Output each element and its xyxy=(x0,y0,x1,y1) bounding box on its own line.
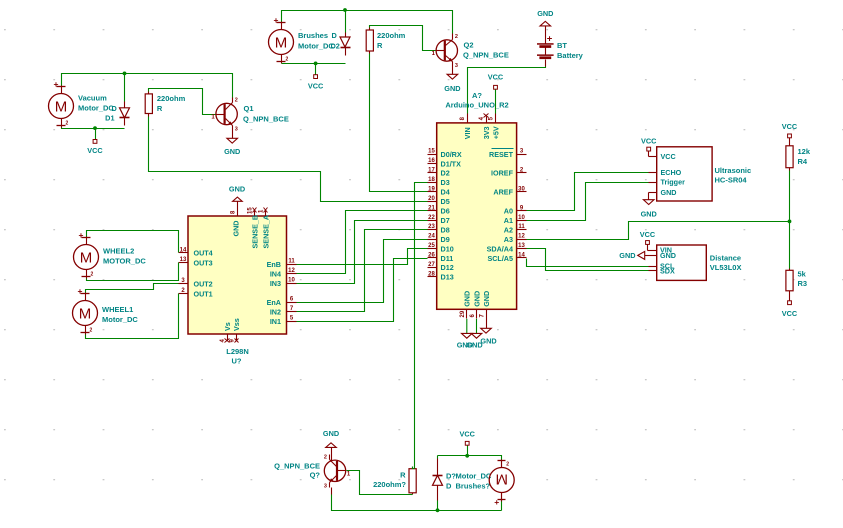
svg-text:BT: BT xyxy=(557,41,567,50)
svg-text:2: 2 xyxy=(455,34,458,40)
svg-text:IOREF: IOREF xyxy=(491,169,514,178)
wire battery minus to Arduino VIN xyxy=(468,67,546,114)
svg-text:L298N: L298N xyxy=(226,347,249,356)
svg-text:2: 2 xyxy=(90,328,93,334)
svg-text:ECHO: ECHO xyxy=(661,168,682,177)
svg-text:12: 12 xyxy=(288,268,295,274)
svg-text:D3: D3 xyxy=(441,178,450,187)
wire IN3 to D7 xyxy=(297,221,428,284)
junction VCC tap vacuum xyxy=(93,126,97,130)
svg-text:WHEEL2: WHEEL2 xyxy=(103,247,134,256)
pin 4 3V3 (no-connect) xyxy=(486,117,488,123)
svg-text:5k: 5k xyxy=(798,270,807,279)
svg-text:25: 25 xyxy=(428,243,435,249)
wire EnA to D9 xyxy=(297,240,428,303)
svg-text:GND: GND xyxy=(482,291,491,307)
pin 15 SENSE_B (no-connect) xyxy=(254,211,256,217)
pin 12 A3 xyxy=(517,239,527,241)
wire WHEEL2 plus to OUT4 xyxy=(87,231,179,253)
wire WHEEL1 minus to OUT1 xyxy=(86,294,179,339)
svg-text:29: 29 xyxy=(460,310,466,317)
svg-text:+: + xyxy=(78,286,83,296)
wire Q? base to resistor xyxy=(347,471,411,495)
pin 14 SCL/A5 xyxy=(517,257,527,259)
svg-text:GND: GND xyxy=(232,221,241,237)
svg-text:GND: GND xyxy=(641,210,657,219)
svg-text:SENSE_B: SENSE_B xyxy=(250,215,259,249)
wire D? anode to bottom rail xyxy=(437,501,439,511)
IC U? L298N body xyxy=(188,216,287,334)
pin 9 A0 xyxy=(517,210,527,212)
svg-text:GND: GND xyxy=(537,9,553,18)
svg-text:M: M xyxy=(80,249,93,266)
pin ECHO xyxy=(649,172,657,174)
svg-text:SDA/A4: SDA/A4 xyxy=(487,244,513,253)
svg-text:M: M xyxy=(495,471,508,488)
svg-text:Distance: Distance xyxy=(710,254,741,263)
svg-text:GND: GND xyxy=(472,291,481,307)
wire SCL/A5 to SCL xyxy=(527,259,649,267)
svg-text:Trigger: Trigger xyxy=(661,178,686,187)
svg-text:12k: 12k xyxy=(798,147,811,156)
svg-text:WHEEL1: WHEEL1 xyxy=(102,305,133,314)
pin 26 D11 xyxy=(428,257,437,259)
pin 3 RESET xyxy=(517,154,527,156)
svg-text:M: M xyxy=(55,98,68,115)
pin 8 GND (L298N) + ground flag xyxy=(237,202,239,217)
svg-text:U?: U? xyxy=(232,357,242,366)
diode D1 pin leads xyxy=(124,102,126,108)
svg-text:GND: GND xyxy=(480,337,496,346)
svg-text:3: 3 xyxy=(235,127,238,133)
svg-text:D8: D8 xyxy=(441,225,450,234)
svg-text:Motor_DC: Motor_DC xyxy=(78,104,114,113)
svg-text:+: + xyxy=(54,79,59,89)
svg-text:30: 30 xyxy=(518,186,525,192)
pin 21 D6 xyxy=(428,210,437,212)
pin 6 EnA xyxy=(287,302,297,304)
svg-text:A0: A0 xyxy=(504,207,513,216)
svg-text:Battery: Battery xyxy=(557,51,584,60)
svg-text:R: R xyxy=(157,104,163,113)
svg-text:A2: A2 xyxy=(504,225,513,234)
svg-text:AREF: AREF xyxy=(493,188,513,197)
wire vacuum top rail to Q1 collector xyxy=(62,74,233,99)
svg-text:IN4: IN4 xyxy=(270,269,281,278)
junction divider mid xyxy=(788,220,792,224)
pin 3 OUT2 xyxy=(179,283,189,285)
power flag VCC HC-SR04 xyxy=(647,147,651,151)
wire Q? emitter to bottom rail xyxy=(332,495,502,511)
svg-text:Brushes?: Brushes? xyxy=(456,481,491,490)
svg-text:2: 2 xyxy=(506,462,509,468)
diode D2 xyxy=(340,37,350,47)
resistor R 220ohm Q2 xyxy=(366,30,373,51)
IC A? Arduino_UNO_R2 body xyxy=(437,123,517,309)
pin 4 Vs (no-connect) xyxy=(227,335,229,341)
svg-text:VIN: VIN xyxy=(463,127,472,139)
ground GND Q? collector xyxy=(326,443,337,448)
svg-text:+: + xyxy=(79,230,84,240)
pin SDA xyxy=(649,270,657,272)
svg-text:D1/TX: D1/TX xyxy=(441,159,462,168)
svg-text:15: 15 xyxy=(428,149,435,155)
svg-text:R4: R4 xyxy=(798,157,808,166)
svg-text:IN3: IN3 xyxy=(270,279,281,288)
svg-text:VCC: VCC xyxy=(87,146,103,155)
svg-text:R: R xyxy=(377,41,383,50)
wire A0 to ECHO xyxy=(527,173,649,211)
svg-text:Q_NPN_BCE: Q_NPN_BCE xyxy=(243,114,289,123)
pin 7 IN2 xyxy=(287,311,297,313)
pin 29 GND / ground xyxy=(466,310,468,319)
pin GND (VL53L0X) xyxy=(645,255,657,257)
svg-text:2: 2 xyxy=(324,454,327,460)
pin 28 D13 xyxy=(428,276,437,278)
wire resistor bottom to Arduino D4 xyxy=(370,54,428,192)
svg-text:IN1: IN1 xyxy=(270,317,281,326)
ground Q2 emitter lead xyxy=(452,68,454,75)
wire VCC to +5V pin xyxy=(495,90,497,114)
motor M WHEEL1 Motor_DC xyxy=(73,301,98,326)
svg-text:26: 26 xyxy=(428,253,435,259)
pin VCC (HC-SR04) xyxy=(649,156,657,158)
pin 13 SDA/A4 xyxy=(517,248,527,250)
resistor R3 5k xyxy=(786,270,793,291)
svg-text:A?: A? xyxy=(472,91,482,100)
pin 27 D12 xyxy=(428,267,437,269)
pin 5 IN1 xyxy=(287,321,297,323)
svg-text:VCC: VCC xyxy=(782,122,798,131)
svg-text:16: 16 xyxy=(428,158,435,164)
diode D2 pin leads xyxy=(345,33,347,38)
pin Trigger xyxy=(649,182,657,184)
svg-text:IN2: IN2 xyxy=(270,307,281,316)
svg-text:Arduino_UNO_R2: Arduino_UNO_R2 xyxy=(445,101,508,110)
motor M Vacuum Motor_DC xyxy=(49,94,74,119)
wire D3 drop to resistor top xyxy=(413,467,415,469)
resistor R4 12k xyxy=(786,146,793,168)
power flag VCC brushes xyxy=(314,75,318,79)
svg-text:VCC: VCC xyxy=(459,430,475,439)
wire to VCC flag bottom xyxy=(467,446,469,456)
svg-text:15: 15 xyxy=(248,207,254,214)
wire to VCC flag xyxy=(95,129,97,140)
ground GND HC-SR04 xyxy=(643,200,654,205)
wire resistor bottom to Arduino D5 xyxy=(149,117,428,202)
svg-text:D10: D10 xyxy=(441,244,454,253)
svg-text:GND: GND xyxy=(619,251,635,260)
svg-text:GND: GND xyxy=(444,84,460,93)
ground GND Q2 xyxy=(447,74,458,79)
svg-text:OUT1: OUT1 xyxy=(194,289,213,298)
svg-text:D: D xyxy=(332,31,337,40)
svg-text:EnA: EnA xyxy=(267,298,281,307)
battery BT leads xyxy=(545,26,547,44)
svg-text:11: 11 xyxy=(518,224,525,230)
motor M Brushes? Motor_DC (mirrored) xyxy=(489,468,514,493)
power flag VCC R4 top xyxy=(788,134,792,138)
pin 2 IOREF xyxy=(517,172,527,174)
pin 9 Vss (no-connect) xyxy=(236,335,238,341)
svg-text:13: 13 xyxy=(518,243,525,249)
wire A3 to divider junction xyxy=(527,222,790,240)
svg-text:14: 14 xyxy=(518,253,525,259)
svg-text:D9: D9 xyxy=(441,235,450,244)
svg-text:Vss: Vss xyxy=(232,318,241,331)
wire brushes top rail to Q2 collector xyxy=(282,11,453,34)
svg-text:R: R xyxy=(400,471,406,480)
power flag VCC arduino xyxy=(494,85,498,89)
svg-text:Q1: Q1 xyxy=(244,104,254,113)
pin 30 AREF xyxy=(517,191,527,193)
pin 11 A2 xyxy=(517,229,527,231)
pin 14 OUT4 xyxy=(179,252,189,254)
svg-text:D2: D2 xyxy=(441,169,450,178)
pin GND (HC-SR04) xyxy=(649,192,657,194)
transistor Q? collector lead xyxy=(331,448,333,461)
pin 24 D9 xyxy=(428,239,437,241)
svg-text:OUT3: OUT3 xyxy=(194,258,213,267)
svg-text:GND: GND xyxy=(229,185,245,194)
wire D3 to bottom resistor xyxy=(415,183,428,469)
pin 8 VIN xyxy=(467,114,469,123)
pin 13 OUT3 xyxy=(179,262,189,264)
ground GND VL53L0X (left arrow) xyxy=(638,251,645,259)
pin 12 IN4 xyxy=(287,273,297,275)
pin 25 D10 xyxy=(428,248,437,250)
wire IN1 to D11 xyxy=(297,259,428,322)
transistor Q1 Q_NPN_BCE xyxy=(216,103,237,124)
svg-text:20: 20 xyxy=(428,196,435,202)
svg-text:M: M xyxy=(275,34,288,51)
pin 5 +5V xyxy=(495,114,497,123)
svg-text:MOTOR_DC: MOTOR_DC xyxy=(103,257,146,266)
ground Q1 emitter lead xyxy=(232,132,234,139)
svg-text:VCC: VCC xyxy=(661,152,676,161)
svg-text:28: 28 xyxy=(428,271,435,277)
pin 10 A1 xyxy=(517,220,527,222)
svg-text:220ohm?: 220ohm? xyxy=(373,480,406,489)
svg-text:Motor_DC: Motor_DC xyxy=(298,41,334,50)
svg-text:2: 2 xyxy=(91,272,94,278)
wire resistor top to Q2 base xyxy=(370,26,437,51)
svg-text:2: 2 xyxy=(286,57,289,63)
transistor Q2 Q_NPN_BCE xyxy=(436,40,457,61)
svg-text:D0/RX: D0/RX xyxy=(441,150,462,159)
resistor R 220ohm? leads xyxy=(412,493,414,495)
svg-text:24: 24 xyxy=(428,234,435,240)
junction VCC tap brushes xyxy=(314,62,318,66)
svg-text:D13: D13 xyxy=(441,273,454,282)
svg-text:SDX: SDX xyxy=(660,266,675,275)
motor top lead xyxy=(501,460,503,468)
power flag VCC vacuum xyxy=(93,140,97,144)
svg-text:RESET: RESET xyxy=(489,150,514,159)
wire bottom VCC rail xyxy=(438,456,502,460)
wire A1 to Trigger xyxy=(527,183,649,221)
svg-text:D7: D7 xyxy=(441,216,450,225)
svg-text:D5: D5 xyxy=(441,197,450,206)
motor M Brushes Motor_DC xyxy=(269,30,294,55)
power flag VCC R3 bottom xyxy=(788,301,792,305)
svg-text:OUT4: OUT4 xyxy=(194,249,213,258)
pin VIN xyxy=(648,250,657,252)
svg-text:D2: D2 xyxy=(331,41,340,50)
resistor R4 leads xyxy=(789,138,791,146)
battery BT plates xyxy=(537,43,554,45)
svg-text:Q?: Q? xyxy=(310,470,321,479)
svg-text:R3: R3 xyxy=(798,279,808,288)
motor bottom lead xyxy=(501,493,503,502)
pin 20 D5 xyxy=(428,201,437,203)
svg-text:Q2: Q2 xyxy=(464,41,474,50)
svg-text:13: 13 xyxy=(180,257,187,263)
svg-text:VL53L0X: VL53L0X xyxy=(710,263,742,272)
svg-text:+: + xyxy=(274,15,279,25)
diode D? leads xyxy=(437,459,439,476)
svg-text:Vs: Vs xyxy=(223,322,232,331)
svg-text:D11: D11 xyxy=(441,254,454,263)
svg-text:+: + xyxy=(494,497,499,507)
svg-text:D: D xyxy=(112,104,117,113)
junction VCC tap bottom xyxy=(465,454,469,458)
svg-text:3V3: 3V3 xyxy=(482,127,491,140)
svg-text:A3: A3 xyxy=(504,235,513,244)
pin 17 D2 xyxy=(428,172,437,174)
svg-text:19: 19 xyxy=(428,186,435,192)
power flag VCC bottom xyxy=(465,441,469,445)
svg-text:VCC: VCC xyxy=(640,230,656,239)
svg-text:Brushes: Brushes xyxy=(298,31,328,40)
pin SCL xyxy=(649,266,657,268)
svg-text:SENSE_A: SENSE_A xyxy=(261,215,270,249)
svg-text:OUT2: OUT2 xyxy=(194,279,213,288)
svg-text:VCC: VCC xyxy=(782,309,798,318)
svg-text:2: 2 xyxy=(235,98,238,104)
motor M WHEEL2 MOTOR_DC xyxy=(74,245,99,270)
pin 6 GND / ground xyxy=(476,310,478,319)
svg-text:GND: GND xyxy=(660,251,676,260)
junction diode D? bottom rail xyxy=(436,508,440,512)
pin 11 EnB xyxy=(287,264,297,266)
svg-text:D: D xyxy=(446,481,452,490)
pin 2 OUT1 xyxy=(179,293,189,295)
pin 7 GND / ground xyxy=(486,310,488,329)
wire WHEEL2 minus to OUT3 xyxy=(87,263,179,281)
svg-text:Motor_DC: Motor_DC xyxy=(456,472,492,481)
wire vacuum bottom rail xyxy=(62,128,125,129)
svg-text:EnB: EnB xyxy=(267,260,281,269)
wire IN4 to D6 xyxy=(297,211,428,274)
svg-text:14: 14 xyxy=(180,247,187,253)
svg-text:22: 22 xyxy=(428,215,435,221)
svg-text:10: 10 xyxy=(288,278,295,284)
svg-text:220ohm: 220ohm xyxy=(157,94,186,103)
svg-text:SCL/A5: SCL/A5 xyxy=(487,254,513,263)
pin 10 IN3 xyxy=(287,283,297,285)
svg-text:Q_NPN_BCE: Q_NPN_BCE xyxy=(463,51,509,60)
svg-text:D1: D1 xyxy=(105,114,114,123)
svg-text:+5V: +5V xyxy=(491,126,500,139)
ground GND Q1 xyxy=(227,138,238,143)
svg-text:GND: GND xyxy=(224,147,240,156)
svg-text:10: 10 xyxy=(518,215,525,221)
svg-text:GND: GND xyxy=(323,429,339,438)
svg-text:18: 18 xyxy=(428,177,435,183)
wire brushes bottom rail xyxy=(282,63,346,65)
svg-text:3: 3 xyxy=(455,63,458,69)
svg-text:220ohm: 220ohm xyxy=(377,31,406,40)
svg-text:Motor_DC: Motor_DC xyxy=(102,315,138,324)
svg-text:GND: GND xyxy=(463,291,472,307)
resistor R 220ohm (Q1 base) leads xyxy=(148,92,150,94)
pin 15 D0/RX xyxy=(428,154,437,156)
svg-text:12: 12 xyxy=(518,234,525,240)
pin 22 D7 xyxy=(428,220,437,222)
pin 19 D4 xyxy=(428,191,437,193)
svg-text:D6: D6 xyxy=(441,207,450,216)
resistor R 220ohm? bottom xyxy=(409,469,416,493)
pin 16 D1/TX xyxy=(428,163,437,165)
svg-text:Ultrasonic: Ultrasonic xyxy=(715,166,752,175)
wire SDA/A4 to SDA xyxy=(527,249,649,271)
wire resistor top to Q1 base xyxy=(149,89,217,115)
diode D? (mirrored) xyxy=(433,475,443,477)
wire rail to D1 anode xyxy=(124,74,126,102)
svg-text:VCC: VCC xyxy=(641,137,657,146)
wire EnB to D10 xyxy=(297,249,428,265)
svg-text:Q_NPN_BCE: Q_NPN_BCE xyxy=(274,462,320,471)
svg-text:21: 21 xyxy=(428,205,435,211)
svg-text:D4: D4 xyxy=(441,188,450,197)
svg-text:D12: D12 xyxy=(441,263,454,272)
power flag VCC VL53L0X xyxy=(646,241,650,245)
wire WHEEL1 plus to OUT2 xyxy=(86,284,179,293)
svg-text:3: 3 xyxy=(324,483,327,489)
wire R4 bottom to R3 top xyxy=(789,171,791,269)
svg-text:A1: A1 xyxy=(504,216,513,225)
svg-text:11: 11 xyxy=(288,259,295,265)
svg-text:M: M xyxy=(79,305,92,322)
IC Distance VL53L0X body xyxy=(657,245,707,280)
transistor Q? emitter lead xyxy=(331,488,333,495)
svg-text:27: 27 xyxy=(428,262,435,268)
junction diode D1 anode / rail xyxy=(123,72,127,76)
pin 23 D8 xyxy=(428,229,437,231)
diode D1 xyxy=(120,108,130,118)
svg-text:Vacuum: Vacuum xyxy=(78,93,107,102)
resistor R 220ohm Q1 xyxy=(145,94,152,114)
wire rail to D2 anode xyxy=(345,11,347,33)
junction diode D2 anode / rail xyxy=(343,8,347,12)
svg-text:GND: GND xyxy=(661,188,677,197)
wire to VCC flag brushes xyxy=(315,64,317,75)
svg-text:23: 23 xyxy=(428,224,435,230)
svg-text:VCC: VCC xyxy=(488,73,504,82)
wire rail to D? cathode xyxy=(437,456,439,459)
svg-text:+: + xyxy=(547,34,553,45)
transistor Q? Q_NPN_BCE (mirrored) xyxy=(324,460,345,481)
ground GND battery xyxy=(540,21,551,26)
svg-text:HC-SR04: HC-SR04 xyxy=(715,175,748,184)
pin 1 SENSE_A (no-connect) xyxy=(265,211,267,217)
svg-text:17: 17 xyxy=(428,168,435,174)
svg-text:VCC: VCC xyxy=(308,81,324,90)
pin 18 D3 xyxy=(428,182,437,184)
resistor R3 leads xyxy=(789,269,791,271)
svg-text:2: 2 xyxy=(66,121,69,127)
